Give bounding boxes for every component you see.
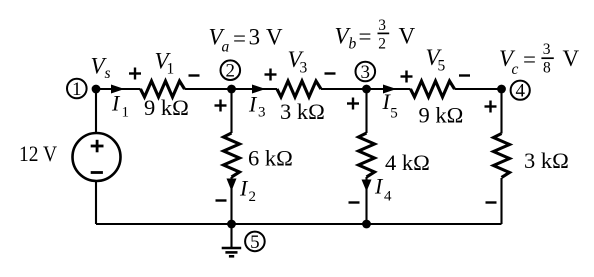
svg-text:3: 3 <box>361 62 371 83</box>
svg-text:I: I <box>374 174 384 199</box>
junction dot node 5 bottom <box>227 220 236 229</box>
wire: node 1 down to source <box>95 89 97 134</box>
svg-text:3: 3 <box>300 60 308 77</box>
label V5 <box>426 45 446 75</box>
label Va = 3 V <box>209 25 284 56</box>
svg-text:5: 5 <box>250 232 260 253</box>
svg-text:V: V <box>266 25 283 50</box>
wire top: resistor V5 to node 4 corner <box>455 88 502 90</box>
svg-text:V: V <box>399 24 416 49</box>
wire top: resistor V1 to resistor V3 <box>185 88 278 90</box>
polarity - of V1 <box>189 74 200 76</box>
junction dot node 4 <box>497 85 506 94</box>
label I2 <box>239 176 256 206</box>
wire top: resistor V3 to resistor V5 <box>321 88 411 90</box>
wire: 3k to bottom rail <box>500 178 502 224</box>
ground <box>222 224 242 256</box>
current arrow I3 <box>252 85 266 94</box>
wire: node 3 down to 4k <box>365 89 367 133</box>
svg-text:6 kΩ: 6 kΩ <box>248 146 293 171</box>
svg-text:1: 1 <box>122 105 130 121</box>
node 1 circle <box>67 79 87 100</box>
svg-text:=: = <box>233 26 246 51</box>
resistor V5 9 kOhm <box>411 81 455 97</box>
label I1 <box>111 91 129 121</box>
label Vc = 3/8 V <box>499 41 580 78</box>
node 3 circle <box>356 62 376 83</box>
svg-text:5: 5 <box>438 58 446 75</box>
svg-text:=: = <box>359 24 372 49</box>
polarity + of V5 <box>401 75 413 77</box>
svg-text:3: 3 <box>258 105 266 121</box>
resistor 6 kOhm <box>224 133 240 177</box>
svg-text:2: 2 <box>249 189 257 205</box>
label I3 <box>248 92 266 121</box>
label Vb = 3/2 V <box>335 17 416 53</box>
wire: 4k to bottom rail <box>365 177 367 224</box>
polarity + of 6k <box>215 104 227 106</box>
svg-text:=: = <box>523 47 536 72</box>
wire: bottom rail <box>96 223 502 225</box>
svg-text:3: 3 <box>249 25 261 50</box>
polarity + of 4k <box>347 102 359 104</box>
resistor 3 kOhm right <box>494 134 510 178</box>
svg-text:1: 1 <box>167 61 175 78</box>
wire top: node 1 to resistor V1 <box>96 88 141 90</box>
svg-text:4: 4 <box>384 189 392 205</box>
junction dot node 1 <box>92 85 101 94</box>
current arrow I1 <box>111 85 125 94</box>
svg-text:c: c <box>512 61 519 78</box>
label V3 <box>288 47 308 77</box>
wire: 6k to bottom rail <box>230 177 232 224</box>
resistor V3 3 kOhm <box>277 81 321 97</box>
svg-text:a: a <box>222 39 230 56</box>
polarity + of 3k <box>485 105 497 107</box>
svg-text:V: V <box>563 46 580 71</box>
current arrow I2 <box>227 179 237 192</box>
current arrow I5 <box>383 85 397 94</box>
label I5 <box>382 89 398 122</box>
svg-text:5: 5 <box>390 106 398 122</box>
svg-text:8: 8 <box>543 59 551 76</box>
svg-text:I: I <box>239 176 249 201</box>
wire: node 4 down to 3k <box>500 89 502 134</box>
svg-text:3: 3 <box>378 17 386 34</box>
label V1 <box>155 49 175 78</box>
wire: source to bottom rail <box>95 181 97 225</box>
resistor V1 9 kOhm <box>141 81 185 97</box>
svg-text:12 V: 12 V <box>19 141 57 166</box>
label I4 <box>374 174 392 205</box>
node 5 circle <box>245 232 265 253</box>
svg-text:2: 2 <box>378 36 386 53</box>
svg-text:4 kΩ: 4 kΩ <box>385 150 430 175</box>
node 2 circle <box>221 60 241 81</box>
svg-text:I: I <box>248 92 258 117</box>
label Vs <box>91 54 111 83</box>
polarity - of V5 <box>459 74 470 76</box>
junction dot node 2 <box>227 85 236 94</box>
svg-text:3 kΩ: 3 kΩ <box>280 99 325 124</box>
wire: node 2 down to 6k <box>230 89 232 133</box>
svg-text:2: 2 <box>226 61 236 82</box>
polarity - of 4k <box>349 201 360 203</box>
svg-text:b: b <box>349 36 357 53</box>
polarity + of V3 <box>265 73 277 75</box>
junction dot node 3 <box>362 85 371 94</box>
svg-text:1: 1 <box>72 79 82 100</box>
junction dot bottom of 4k <box>362 220 371 229</box>
svg-text:I: I <box>111 91 121 116</box>
polarity + of V1 <box>129 72 141 74</box>
svg-text:4: 4 <box>515 81 525 102</box>
current arrow I4 <box>362 180 372 192</box>
polarity - of 3k <box>486 201 497 203</box>
svg-text:9 kΩ: 9 kΩ <box>144 95 189 120</box>
voltage source 12 V <box>73 133 121 181</box>
svg-text:9 kΩ: 9 kΩ <box>419 103 464 128</box>
svg-text:s: s <box>105 65 111 82</box>
polarity - of V3 <box>325 72 336 74</box>
svg-text:3 kΩ: 3 kΩ <box>524 148 569 173</box>
node 4 circle <box>511 81 530 102</box>
resistor 4 kOhm <box>359 133 375 177</box>
polarity - of 6k <box>216 199 227 201</box>
svg-text:3: 3 <box>543 41 551 58</box>
